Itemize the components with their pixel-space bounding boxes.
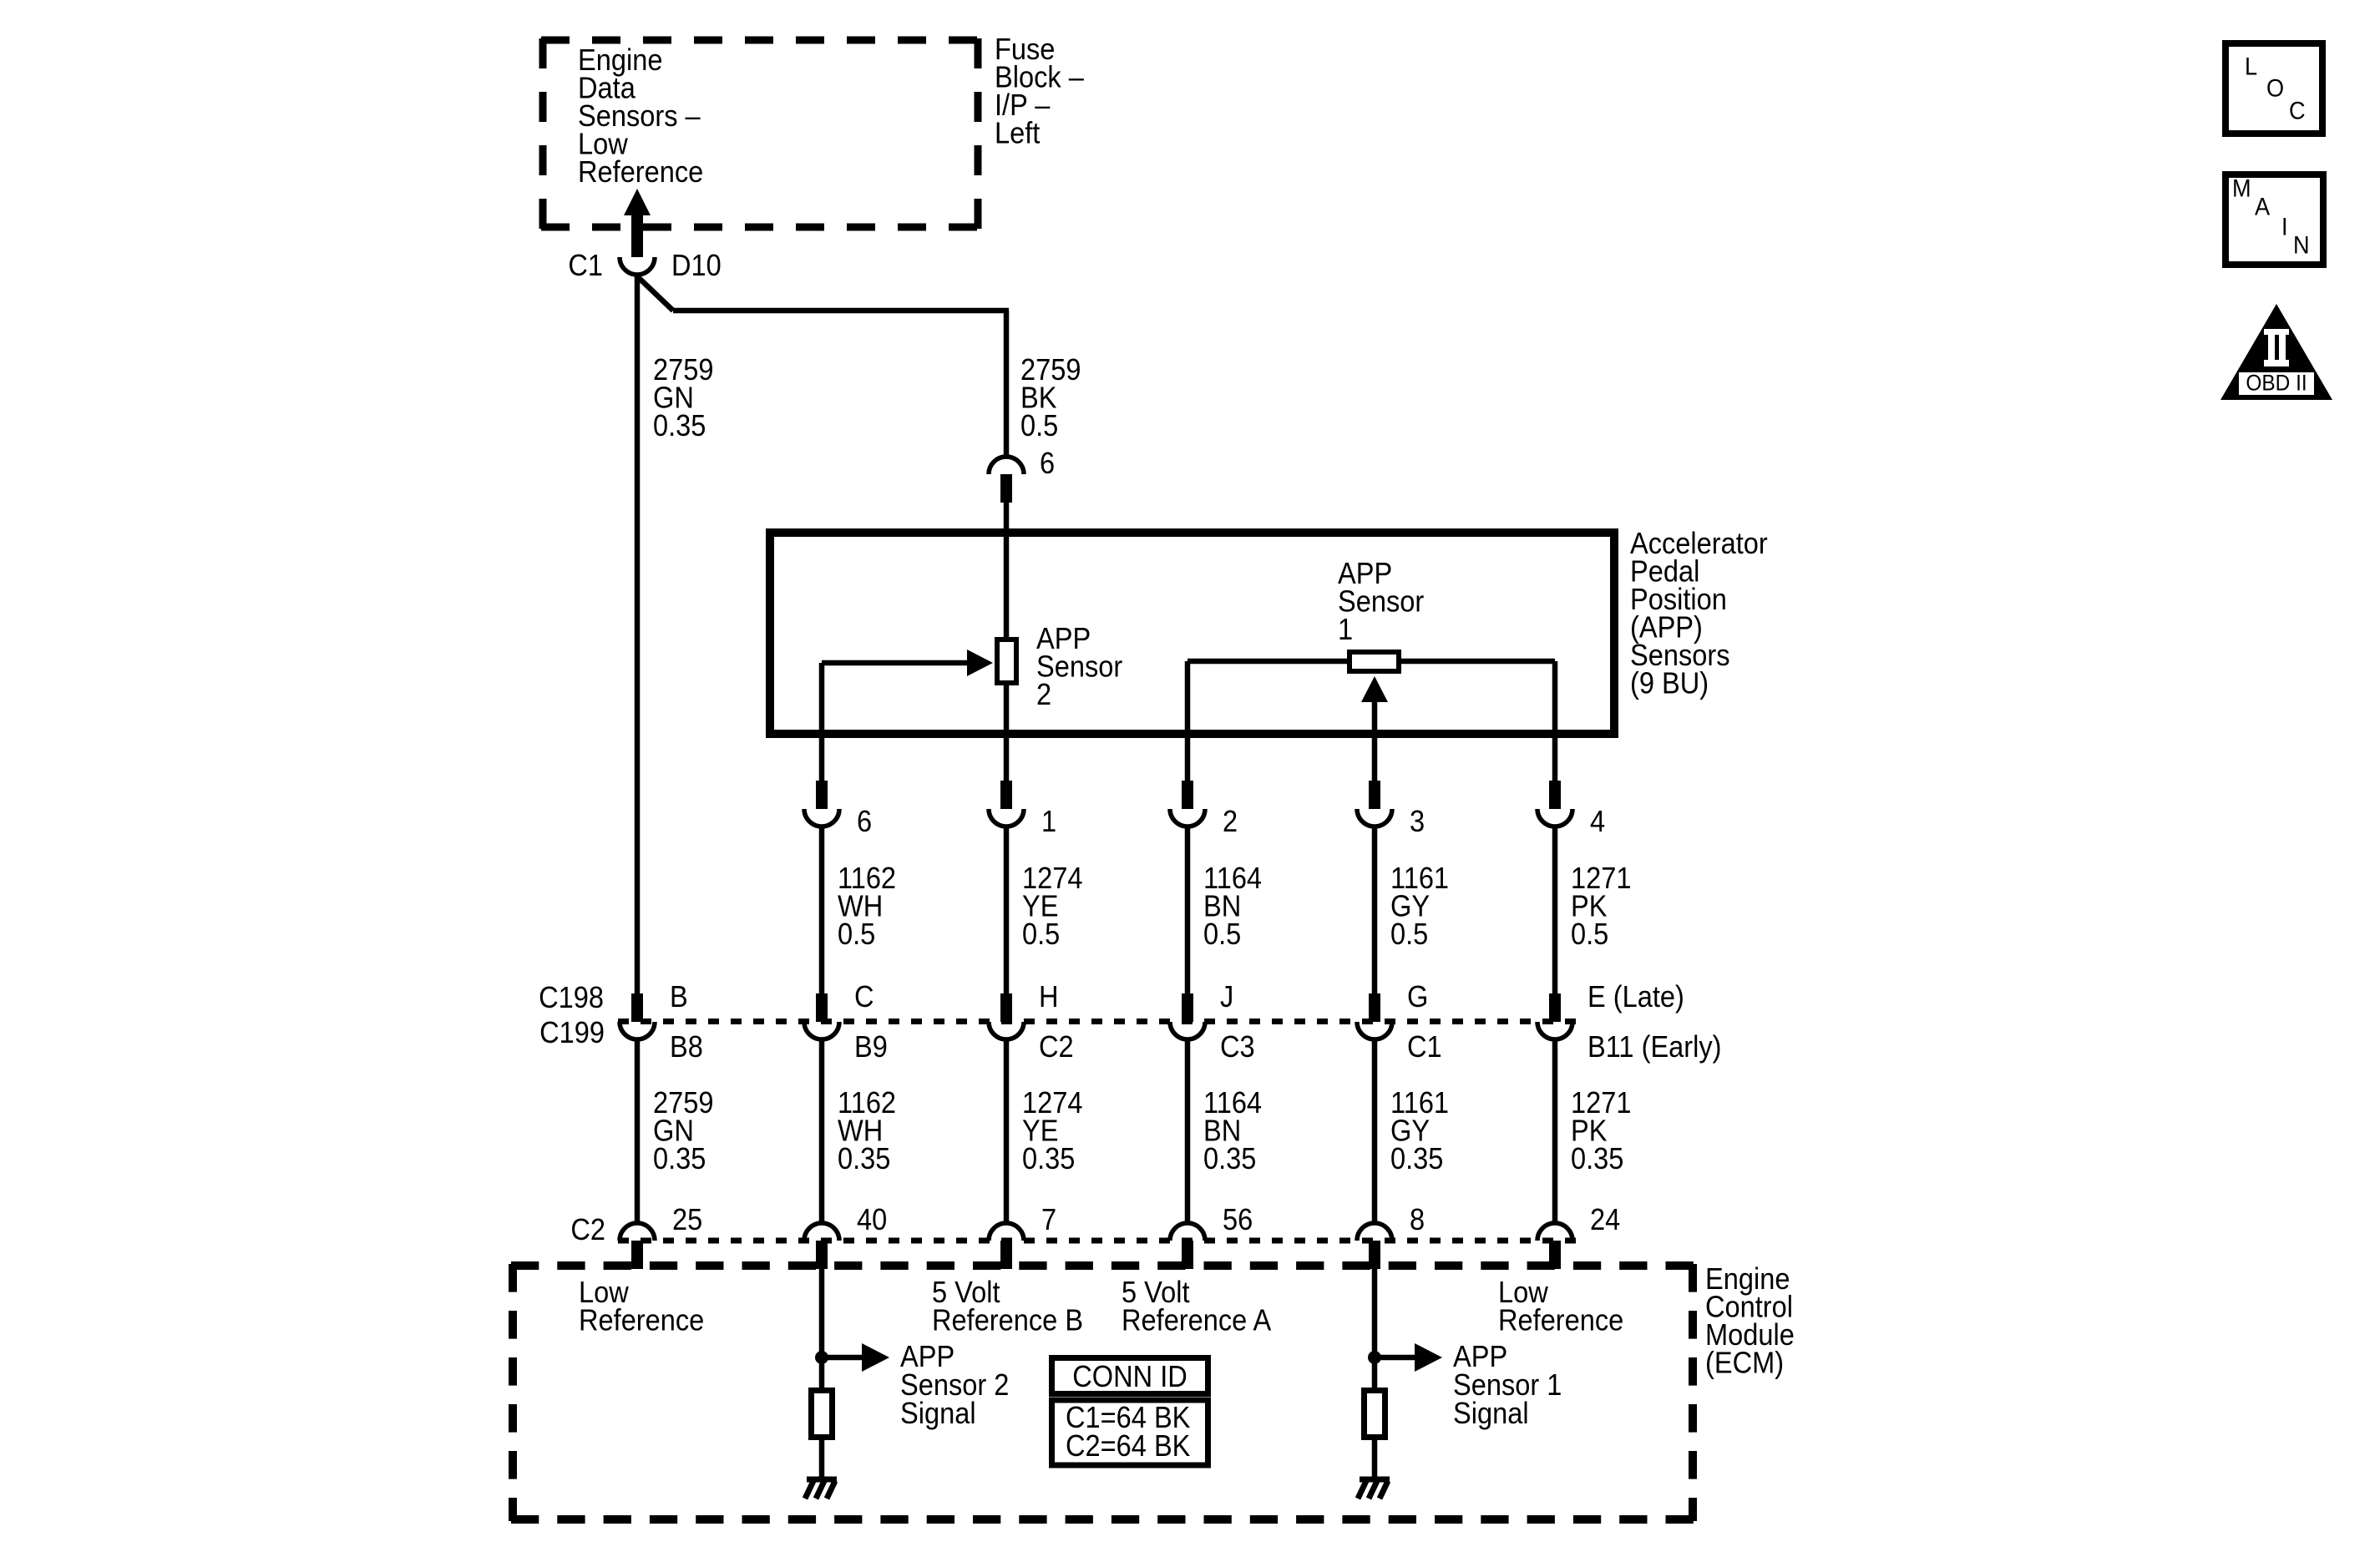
svg-text:Reference: Reference — [578, 155, 703, 189]
svg-text:C198: C198 — [539, 981, 604, 1014]
CONN ID table header box — [1052, 1358, 1208, 1394]
svg-text:OBD II: OBD II — [2246, 372, 2307, 396]
wire — [819, 1438, 825, 1478]
ground (sensor 1) — [1360, 1477, 1390, 1483]
svg-text:2: 2 — [1036, 678, 1051, 711]
svg-text:0.35: 0.35 — [653, 409, 706, 442]
svg-text:6: 6 — [1040, 447, 1055, 480]
connector pin 1 of APP sensors — [1000, 781, 1012, 809]
wire: horizontal run to fuse block connector — [673, 308, 1009, 314]
svg-text:0.35: 0.35 — [1022, 1142, 1075, 1175]
svg-text:40: 40 — [857, 1203, 887, 1236]
connector 6 (fuse block): dome — [989, 457, 1024, 474]
connector C2 pin 24 — [1537, 1223, 1572, 1241]
wire: diagonal branch from C1 — [637, 276, 673, 311]
wire — [1185, 826, 1191, 993]
resistor (sensor 2 pull) — [812, 1391, 833, 1438]
wire — [819, 826, 825, 993]
svg-text:C3: C3 — [1220, 1030, 1255, 1064]
svg-text:4: 4 — [1590, 805, 1605, 838]
wire: pot 1 left lead down (pin 2) — [1185, 661, 1191, 781]
wire — [1372, 1438, 1378, 1478]
wire — [1552, 1039, 1558, 1223]
connector C2 pin 56 — [1170, 1223, 1205, 1241]
connector C2 pin 7 — [989, 1223, 1024, 1241]
connector C198/C199 pin E (Late)/B11 (Early) — [1549, 993, 1561, 1022]
connector C1/D10: female cup — [620, 257, 655, 275]
svg-text:J: J — [1220, 980, 1233, 1014]
svg-text:C1: C1 — [568, 249, 603, 282]
connector C1/D10: arrow terminal into box — [624, 189, 651, 215]
svg-text:0.5: 0.5 — [1203, 917, 1241, 951]
connector C2 pin 40 — [804, 1223, 839, 1241]
wire — [819, 1039, 825, 1223]
wire — [1372, 1039, 1378, 1223]
svg-text:Signal: Signal — [900, 1397, 976, 1430]
svg-text:1: 1 — [1338, 613, 1353, 646]
wire: pot 1 right lead — [1399, 659, 1555, 665]
svg-text:1: 1 — [1041, 805, 1056, 838]
junction node (sensor 2 signal) — [815, 1351, 828, 1364]
wire: pot 2 bottom lead (pin 1) — [1004, 683, 1010, 781]
svg-text:B8: B8 — [670, 1030, 703, 1064]
resistor (sensor 1 pull) — [1365, 1391, 1385, 1438]
svg-text:L: L — [2245, 53, 2257, 81]
wire — [635, 1039, 641, 1223]
wire: APP sensor 1 signal inside ECM — [1372, 1269, 1378, 1390]
potentiometer APP Sensor 1 — [1350, 652, 1399, 671]
module box: Engine Control Module (ECM) (dashed) — [511, 1264, 1694, 1521]
wiper arrow of APP Sensor 1 — [1361, 676, 1388, 702]
junction block: Engine Data Sensors - Low Reference (dashed box) — [541, 38, 980, 229]
svg-text:0.35: 0.35 — [1390, 1142, 1443, 1175]
connector pin 2 of APP sensors — [1182, 781, 1193, 809]
svg-text:6: 6 — [857, 805, 872, 838]
wire: into APP sensor box — [1004, 503, 1010, 537]
ground (sensor 2) — [807, 1477, 837, 1483]
svg-text:(9 BU): (9 BU) — [1630, 667, 1709, 700]
svg-text:0.35: 0.35 — [838, 1142, 890, 1175]
svg-text:C1: C1 — [1407, 1030, 1442, 1064]
CONN ID table body box — [1052, 1400, 1208, 1465]
connector 6 (fuse block): terminal — [1000, 474, 1012, 503]
svg-text:N: N — [2293, 231, 2310, 260]
potentiometer APP Sensor 2 — [997, 639, 1016, 683]
svg-text:8: 8 — [1410, 1203, 1425, 1236]
LOC reference box — [2226, 43, 2322, 134]
svg-text:0.5: 0.5 — [1390, 917, 1428, 951]
svg-text:3: 3 — [1410, 805, 1425, 838]
svg-text:A: A — [2255, 193, 2271, 221]
junction node (sensor 1 signal) — [1368, 1351, 1381, 1364]
svg-text:C: C — [854, 980, 874, 1014]
connector C198/C199 pin J/C3 — [1182, 993, 1193, 1022]
svg-text:Reference: Reference — [1498, 1304, 1623, 1337]
svg-text:B: B — [670, 980, 688, 1014]
svg-text:C: C — [2289, 97, 2306, 125]
svg-text:(ECM): (ECM) — [1705, 1347, 1784, 1380]
connector pin 6 of APP sensors — [816, 781, 828, 809]
connector C198/C199 pin B/B8 — [631, 993, 643, 1022]
wire — [1004, 1039, 1010, 1223]
svg-text:0.35: 0.35 — [1203, 1142, 1256, 1175]
wire: APP sensor 2 signal inside ECM — [819, 1269, 825, 1390]
arrow: APP Sensor 1 Signal — [1375, 1355, 1416, 1361]
svg-text:0.5: 0.5 — [1020, 409, 1058, 442]
svg-text:2: 2 — [1223, 805, 1238, 838]
wire: wiper 1 lead down (pin 3) — [1372, 702, 1378, 781]
svg-text:H: H — [1039, 980, 1059, 1014]
svg-text:O: O — [2266, 74, 2284, 103]
connector C2 pin 25 — [620, 1223, 655, 1241]
MAIN reference box — [2226, 174, 2323, 265]
svg-text:I: I — [2281, 213, 2288, 241]
wire — [1185, 1039, 1191, 1223]
wire — [1372, 826, 1378, 993]
svg-text:B11 (Early): B11 (Early) — [1588, 1030, 1722, 1064]
svg-text:56: 56 — [1223, 1203, 1253, 1236]
wire — [1552, 826, 1558, 993]
svg-text:0.5: 0.5 — [1022, 917, 1060, 951]
svg-text:C2: C2 — [1039, 1030, 1074, 1064]
connector pin 4 of APP sensors — [1549, 781, 1561, 809]
connector C2 pin 8 — [1357, 1223, 1392, 1241]
svg-text:C2: C2 — [570, 1213, 605, 1246]
svg-text:24: 24 — [1590, 1203, 1620, 1236]
svg-text:0.5: 0.5 — [1571, 917, 1608, 951]
wire: down to fuse block connector 6 — [1004, 311, 1010, 457]
OBD II pillar glyph — [2239, 329, 2314, 395]
svg-text:Reference A: Reference A — [1122, 1304, 1271, 1337]
connector C198/C199 dashed line — [618, 1019, 1578, 1024]
svg-text:M: M — [2232, 174, 2251, 203]
svg-text:0.5: 0.5 — [838, 917, 875, 951]
svg-text:B9: B9 — [854, 1030, 888, 1064]
connector C2 dashed line — [618, 1238, 1578, 1244]
svg-text:G: G — [1407, 980, 1428, 1014]
component box: Accelerator Pedal Position (APP) Sensors — [770, 533, 1614, 734]
connector C198/C199 pin H/C2 — [1000, 993, 1012, 1022]
svg-text:Reference: Reference — [579, 1304, 704, 1337]
svg-text:C199: C199 — [539, 1016, 605, 1049]
svg-text:7: 7 — [1041, 1203, 1056, 1236]
svg-text:D10: D10 — [671, 249, 722, 282]
wire: pot 1 left lead — [1187, 659, 1350, 665]
wiper arrow of APP Sensor 2 — [822, 660, 969, 666]
wire — [1004, 826, 1010, 993]
connector pin 3 of APP sensors — [1369, 781, 1380, 809]
svg-text:0.35: 0.35 — [1571, 1142, 1623, 1175]
wire: low reference down from C1 — [635, 275, 641, 993]
wire: pot 1 right lead down (pin 4) — [1552, 661, 1558, 781]
svg-text:CONN ID: CONN ID — [1072, 1360, 1187, 1393]
svg-text:25: 25 — [672, 1203, 702, 1236]
connector C198/C199 pin G/C1 — [1369, 993, 1380, 1022]
svg-text:Signal: Signal — [1453, 1397, 1529, 1430]
connector C198/C199 pin C/B9 — [816, 993, 828, 1022]
svg-text:Reference B: Reference B — [932, 1304, 1083, 1337]
OBD II triangle symbol — [2220, 304, 2332, 400]
arrow: APP Sensor 2 Signal — [822, 1355, 863, 1361]
svg-text:C2=64 BK: C2=64 BK — [1066, 1429, 1191, 1463]
svg-text:Left: Left — [995, 117, 1041, 150]
svg-text:E (Late): E (Late) — [1588, 980, 1684, 1014]
wire: wiper 2 lead down (pin 6) — [819, 663, 825, 781]
wire: pot 2 top lead — [1004, 533, 1010, 639]
svg-text:0.35: 0.35 — [653, 1142, 706, 1175]
